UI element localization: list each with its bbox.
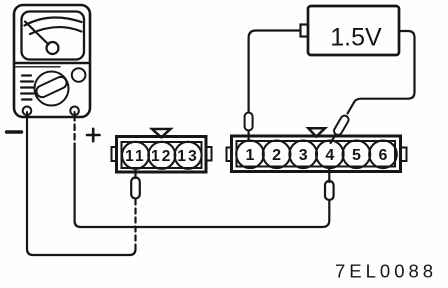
test probe above pin 4 (tilted) — [333, 114, 350, 136]
wire: meter negative terminal down and right — [27, 115, 136, 255]
connector A pin 11 — [122, 142, 149, 169]
svg-text:5: 5 — [352, 147, 361, 164]
svg-text:3: 3 — [299, 147, 308, 164]
connector B left tab — [227, 148, 232, 162]
connector B (6-pin) outer housing — [232, 136, 401, 172]
meter scale arc upper — [25, 18, 82, 26]
connector A pin 12 — [148, 142, 175, 169]
wire: battery right side to tilted probe above pin 4 — [348, 31, 415, 114]
meter display window — [22, 12, 85, 60]
multimeter body — [14, 5, 90, 117]
meter aux button — [72, 68, 86, 82]
plus label — [87, 129, 100, 141]
connector B right tab — [401, 148, 407, 162]
connector B inner frame — [237, 141, 396, 167]
svg-text:7EL0088: 7EL0088 — [335, 261, 437, 282]
meter selector knob — [35, 72, 69, 106]
test probe below pin 11 — [134, 168, 136, 178]
wire: dashed lead from probe below pin 11 — [134, 200, 136, 246]
svg-text:6: 6 — [379, 147, 388, 164]
svg-text:1: 1 — [246, 147, 255, 164]
svg-text:1.5V: 1.5V — [330, 24, 382, 52]
connector B index triangle — [308, 128, 325, 136]
svg-text:12: 12 — [151, 148, 173, 165]
svg-text:4: 4 — [325, 147, 334, 164]
battery terminal nub — [301, 25, 309, 37]
minus label — [7, 130, 22, 133]
wire: meter positive terminal to probe below pin 4 — [75, 149, 330, 227]
connector A index triangle — [152, 129, 171, 137]
wire: battery nub to probe above pin 1 — [249, 31, 301, 113]
svg-text:13: 13 — [177, 148, 199, 165]
meter range marks — [21, 76, 34, 100]
connector A (3-pin) outer housing — [117, 137, 207, 173]
connector B pin 1 — [236, 141, 264, 169]
connector A left tab — [112, 147, 117, 161]
connector B pin 2 — [263, 141, 291, 169]
connector B pin 4 — [316, 141, 344, 169]
meter terminal positive — [70, 107, 79, 116]
meter knob pointer — [35, 75, 69, 99]
connector A pin 13 — [175, 142, 202, 169]
connector B pin 3 — [289, 141, 317, 169]
meter needle pivot — [47, 42, 59, 54]
wire: meter positive terminal dashed upper segment — [73, 115, 75, 150]
connector B pin 6 — [369, 141, 397, 169]
test probe below pin 4 — [328, 168, 330, 182]
connector A inner frame — [122, 142, 202, 168]
test probe above pin 1 — [245, 113, 253, 131]
svg-text:2: 2 — [272, 147, 281, 164]
svg-text:11: 11 — [125, 148, 146, 165]
meter panel separator line — [16, 62, 89, 65]
meter scale arc lower — [30, 27, 82, 34]
connector A right tab — [206, 147, 212, 161]
meter terminal negative — [23, 107, 32, 116]
battery 1.5V body — [308, 6, 399, 55]
connector B pin 5 — [343, 141, 371, 169]
meter needle — [25, 22, 49, 45]
